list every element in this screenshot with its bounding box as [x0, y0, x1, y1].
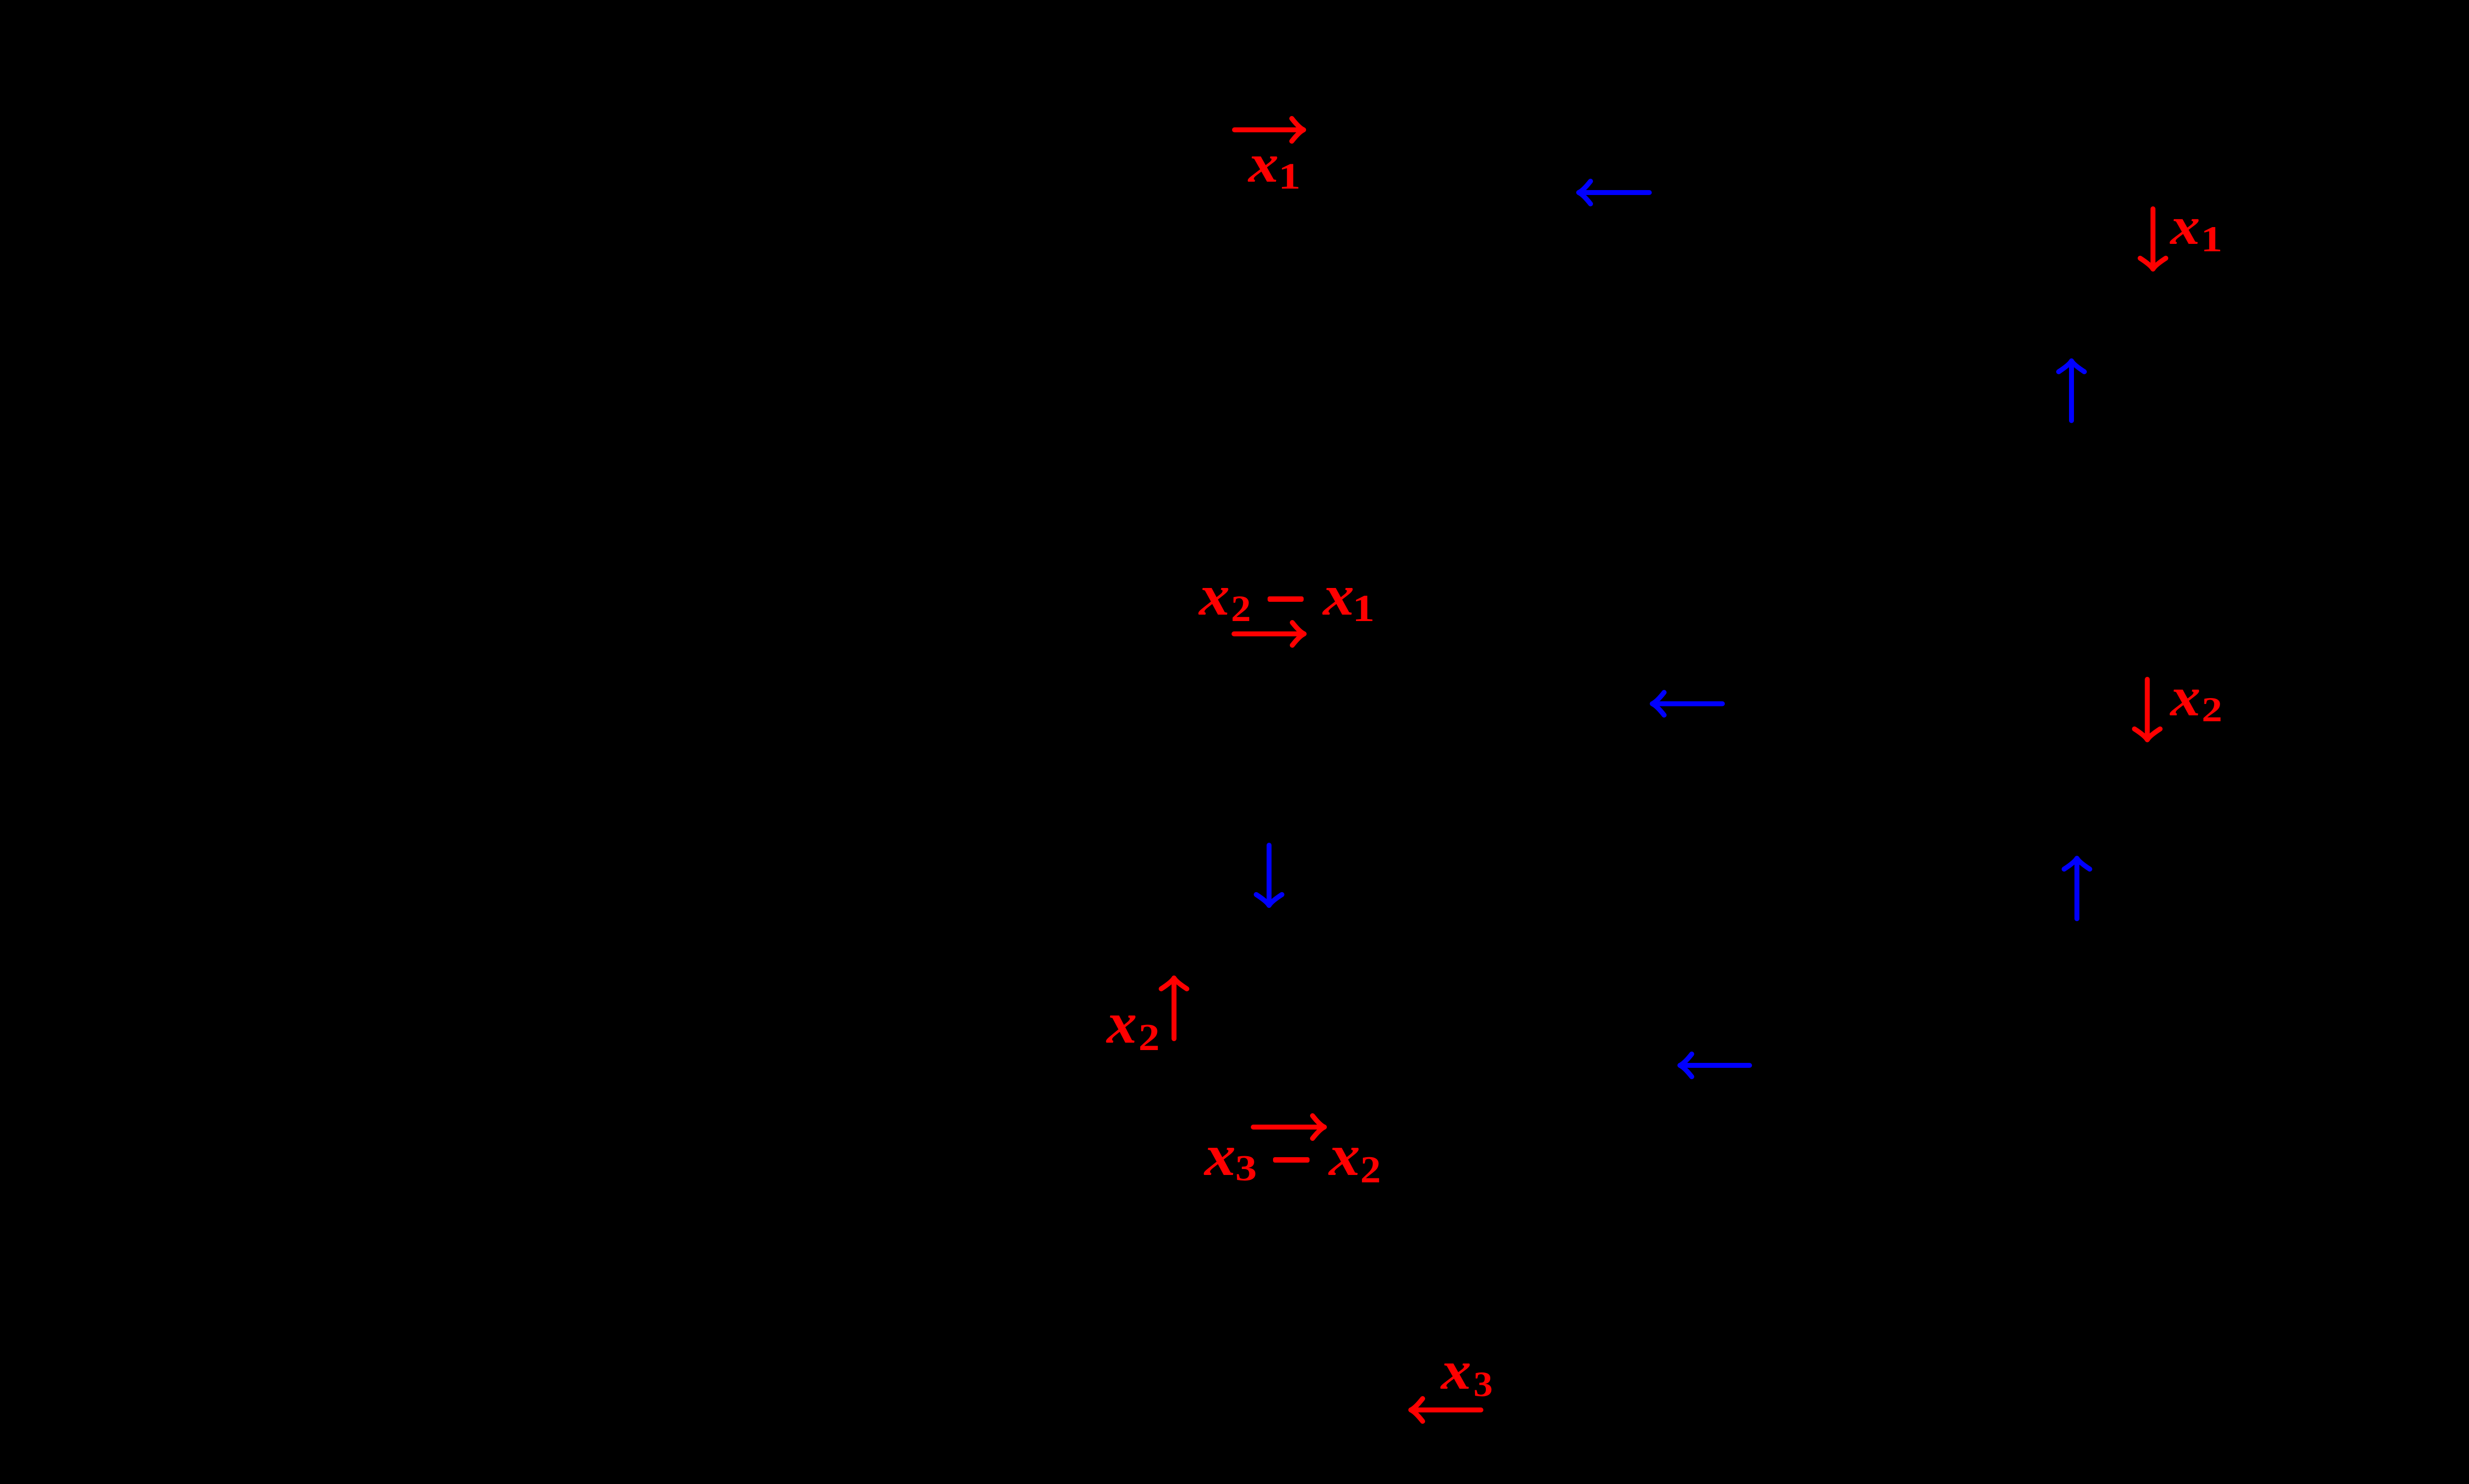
svg-text:x: x [1247, 133, 1278, 194]
svg-text:x: x [1440, 1340, 1471, 1401]
svg-text:2: 2 [2202, 690, 2223, 729]
svg-text:x: x [1322, 563, 1354, 627]
svg-text:2: 2 [1139, 1016, 1160, 1058]
svg-text:2: 2 [1231, 588, 1251, 629]
svg-text:1: 1 [1278, 156, 1301, 197]
svg-text:x: x [1106, 990, 1137, 1055]
svg-text:2: 2 [1360, 1149, 1381, 1191]
svg-text:x: x [1198, 563, 1230, 627]
svg-text:x: x [2169, 196, 2200, 255]
svg-text:3: 3 [1235, 1148, 1257, 1188]
svg-text:x: x [1203, 1122, 1235, 1188]
svg-text:3: 3 [1473, 1365, 1493, 1405]
svg-text:x: x [2169, 666, 2200, 728]
svg-text:1: 1 [1353, 587, 1375, 629]
svg-text:x: x [1328, 1122, 1360, 1188]
svg-text:1: 1 [2201, 219, 2223, 259]
